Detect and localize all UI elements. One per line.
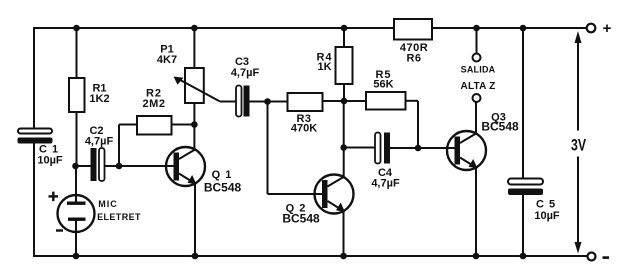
node bottom rail Q1 emitter bbox=[192, 253, 199, 260]
svg-text:4,7µF: 4,7µF bbox=[231, 67, 260, 79]
resistor R4 bbox=[316, 28, 352, 102]
wire Q2 collector bbox=[343, 101, 345, 178]
svg-text:2M2: 2M2 bbox=[143, 98, 166, 110]
wire top rail left section bbox=[34, 27, 394, 29]
svg-text:4K7: 4K7 bbox=[157, 54, 177, 66]
transistor Q1 BC548 bbox=[166, 147, 242, 256]
node bottom rail C5 bbox=[520, 253, 527, 260]
resistor R3 bbox=[288, 93, 367, 135]
svg-text:ELETRET: ELETRET bbox=[97, 212, 141, 222]
svg-text:4,7µF: 4,7µF bbox=[85, 136, 114, 148]
transistor Q3 BC548 bbox=[447, 102, 519, 256]
wire left vertical above C1 bbox=[33, 28, 35, 128]
svg-text:10µF: 10µF bbox=[37, 155, 63, 167]
terminal SALIDA upper bbox=[473, 54, 481, 62]
svg-text:Q 1: Q 1 bbox=[212, 169, 233, 181]
resistor R1 bbox=[69, 28, 110, 166]
wire left vertical below C1 bbox=[33, 144, 35, 257]
svg-text:SALIDA: SALIDA bbox=[461, 65, 496, 75]
node R2 / P1 / Q1 collector bbox=[191, 121, 198, 128]
wire top rail right section bbox=[432, 27, 587, 29]
potentiometer P1 bbox=[157, 28, 236, 150]
node bottom rail Q3 emitter bbox=[473, 253, 480, 260]
wire Q2 base drop bbox=[267, 102, 269, 195]
wire bottom rail bbox=[34, 255, 587, 257]
resistor R5 bbox=[366, 69, 418, 148]
terminal - negative bbox=[588, 253, 596, 261]
node top rail R1 bbox=[73, 25, 80, 32]
wire output upper bbox=[476, 28, 478, 54]
svg-text:ALTA Z: ALTA Z bbox=[461, 81, 496, 92]
node top rail P1 bbox=[191, 25, 198, 32]
transistor Q2 BC548 bbox=[282, 175, 353, 257]
capacitor C3 bbox=[231, 56, 288, 117]
node top rail output bbox=[473, 25, 480, 32]
node C3 / R3 / Q2 base bbox=[264, 98, 271, 105]
node bottom rail mic bbox=[73, 253, 80, 260]
label - bbox=[603, 256, 610, 259]
node input junction bbox=[72, 163, 79, 170]
svg-text:BC548: BC548 bbox=[481, 120, 519, 134]
capacitor C2 bbox=[76, 125, 180, 181]
resistor R2 bbox=[119, 88, 194, 167]
capacitor C4 bbox=[344, 133, 459, 190]
microphone MIC ELETRET bbox=[49, 166, 141, 256]
svg-text:10µF: 10µF bbox=[534, 210, 560, 222]
terminal + positive bbox=[587, 24, 596, 33]
svg-text:R6: R6 bbox=[406, 53, 421, 65]
wire Q2 base horizontal bbox=[268, 193, 328, 195]
svg-text:+: + bbox=[603, 20, 612, 37]
svg-text:4,7µF: 4,7µF bbox=[371, 178, 400, 190]
node C4 / Q2 collector bbox=[340, 144, 347, 151]
capacitor C5 bbox=[508, 28, 560, 256]
svg-text:MIC: MIC bbox=[98, 199, 118, 209]
svg-text:BC548: BC548 bbox=[204, 181, 242, 195]
node top rail R4 bbox=[341, 25, 348, 32]
node top rail C5 bbox=[520, 25, 527, 32]
terminal SALIDA lower bbox=[473, 94, 481, 102]
svg-text:1K2: 1K2 bbox=[89, 93, 109, 105]
capacitor C1 bbox=[18, 129, 63, 167]
svg-text:3V: 3V bbox=[571, 136, 586, 155]
svg-text:56K: 56K bbox=[373, 79, 393, 91]
svg-text:470K: 470K bbox=[291, 123, 317, 135]
svg-text:C 5: C 5 bbox=[536, 199, 556, 211]
svg-text:BC548: BC548 bbox=[282, 212, 320, 226]
node C4 / R5 / Q3 base bbox=[415, 145, 422, 152]
battery 3V indicator arrow bbox=[571, 31, 586, 254]
resistor R6 bbox=[394, 19, 432, 65]
node bottom rail Q2 emitter bbox=[340, 253, 347, 260]
node R3 / R4 / R5 / Q2 collector bbox=[341, 98, 348, 105]
svg-text:1K: 1K bbox=[317, 61, 331, 73]
node Q1 base / R2 bbox=[116, 163, 123, 170]
